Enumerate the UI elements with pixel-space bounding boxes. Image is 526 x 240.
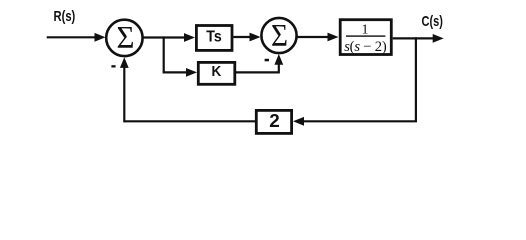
wire Ts to summing junction U2 [233, 36, 252, 38]
block K [198, 62, 235, 84]
svg-text:K: K [212, 63, 222, 80]
summing junction U1 [106, 20, 142, 56]
wire U2 to plant block [297, 36, 331, 38]
node branch after U1 [163, 36, 165, 72]
node takeoff for feedback [415, 37, 417, 121]
wire plant to output C(s) [393, 37, 436, 39]
svg-text:s(s − 2): s(s − 2) [344, 39, 387, 55]
wire block 2 back to U1 [124, 120, 255, 122]
svg-text:Σ: Σ [271, 17, 288, 53]
svg-text:R(s): R(s) [54, 9, 76, 25]
block 2 feedback gain [256, 110, 291, 133]
wire U1 to branch node and into Ts [143, 36, 187, 38]
svg-text:2: 2 [269, 111, 280, 131]
svg-text:1: 1 [362, 22, 369, 37]
wire branch to K block [163, 71, 189, 73]
svg-text:C(s): C(s) [422, 14, 443, 30]
minus sign at U1 feedback input [111, 65, 115, 67]
block Ts [196, 26, 232, 51]
svg-text:Σ: Σ [117, 19, 135, 55]
wire K right then up into U2 [235, 71, 279, 73]
summing junction U2 [261, 18, 296, 53]
wire feedback to block H=2 [301, 120, 418, 122]
svg-text:Ts: Ts [206, 29, 222, 46]
wire input to summing junction U1 [47, 36, 97, 38]
block G(s)=1/(s(s-2)) [340, 20, 391, 55]
fraction bar [346, 35, 386, 36]
minus sign at U2 lower input [265, 59, 269, 62]
